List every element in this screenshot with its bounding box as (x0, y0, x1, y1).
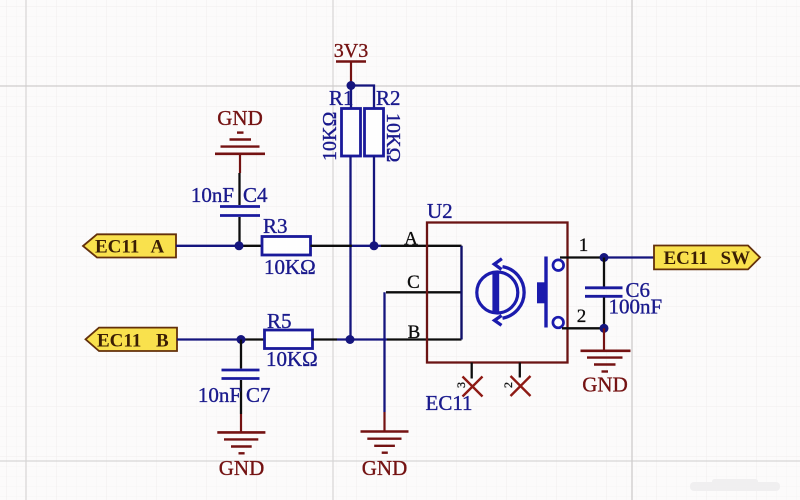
junction R1/EC11_B (346, 335, 355, 344)
wire EC11_A to junction (176, 245, 243, 247)
power 3V3 (334, 40, 368, 86)
svg-text:10nF: 10nF (191, 183, 234, 207)
svg-text:U2: U2 (427, 199, 453, 223)
svg-text:2: 2 (501, 382, 515, 388)
svg-text:2: 2 (577, 306, 587, 327)
pin C of U2 (386, 291, 462, 293)
pin R3.2 (311, 245, 353, 247)
svg-text:3V3: 3V3 (334, 40, 368, 62)
port EC11_B (86, 328, 178, 352)
switch plunger (537, 282, 545, 303)
svg-text:R3: R3 (263, 214, 288, 238)
svg-text:EC11: EC11 (426, 391, 473, 415)
ground GND (net C, bottom centre) (361, 412, 409, 453)
wire EC11_B to junction (177, 338, 245, 340)
svg-text:10KΩ: 10KΩ (266, 347, 318, 371)
wire C to GND (383, 292, 385, 412)
ground GND (below C7) (217, 414, 265, 453)
svg-text:SW: SW (721, 248, 751, 269)
svg-text:GND: GND (219, 456, 265, 480)
resistor R5 (265, 309, 318, 371)
no-connect pin 3 (454, 363, 483, 397)
svg-text:EC11: EC11 (95, 237, 139, 258)
junction 3V3 (347, 81, 356, 90)
pin R5.1 (245, 338, 265, 340)
wire to junction A (352, 245, 374, 247)
pin A of U2 (381, 245, 462, 247)
svg-text:A: A (404, 229, 418, 250)
watermark blob (690, 479, 780, 491)
junction R2/EC11_A (370, 241, 379, 250)
resistor R3 (262, 214, 316, 279)
capacitor C4 (191, 173, 268, 246)
switch contact 2 (553, 317, 564, 328)
wire pin1 to EC11_SW (604, 256, 654, 258)
svg-text:C4: C4 (243, 183, 268, 207)
svg-text:10KΩ: 10KΩ (264, 255, 316, 279)
port EC11_SW (654, 246, 760, 270)
svg-text:R2: R2 (376, 86, 401, 110)
ground GND (right) (581, 328, 631, 371)
pin 1 of U2 (560, 256, 604, 258)
svg-text:B: B (408, 322, 421, 343)
svg-text:100nF: 100nF (609, 295, 663, 319)
svg-text:R1: R1 (329, 86, 354, 110)
component U2 (EC11 encoder) body (427, 199, 568, 363)
pin B of U2 (387, 338, 462, 340)
wire 3V3 to R1 (350, 86, 352, 109)
svg-text:C: C (407, 272, 420, 293)
no-connect pin 2 (501, 363, 531, 397)
port EC11_A (83, 234, 176, 257)
wire 3V3 to R2 (351, 86, 374, 109)
svg-text:3: 3 (454, 382, 468, 388)
pin R5.2 (313, 338, 338, 340)
svg-text:10KΩ: 10KΩ (319, 112, 341, 161)
wire R1 bottom to EC11_B row (349, 156, 351, 340)
encoder rotor circle (477, 259, 524, 326)
svg-text:EC11: EC11 (664, 248, 708, 269)
svg-text:C7: C7 (246, 383, 271, 407)
wire R2 bottom to EC11_A row (373, 156, 375, 246)
capacitor C7 (198, 340, 271, 415)
svg-text:GND: GND (217, 106, 263, 130)
svg-text:EC11: EC11 (97, 331, 141, 352)
svg-text:1: 1 (579, 235, 589, 256)
ground GND (above C4, flipped) (215, 133, 265, 173)
resistor R1 (319, 86, 361, 161)
junction pin2/C6 (600, 324, 609, 333)
svg-text:GND: GND (362, 456, 408, 480)
junction C4/EC11_A (235, 241, 244, 250)
inner common bar (460, 246, 462, 340)
svg-text:10KΩ: 10KΩ (382, 113, 404, 162)
wire to junction B (337, 338, 387, 340)
junction C7/EC11_B (237, 335, 246, 344)
resistor R2 (365, 86, 405, 162)
svg-text:GND: GND (582, 373, 628, 397)
wire junction to pin A (374, 245, 381, 247)
switch contact 1 (553, 260, 564, 271)
capacitor C6 (585, 258, 662, 329)
junction pin1/C6 (600, 253, 609, 262)
pin R3.1 (243, 245, 262, 247)
svg-text:A: A (151, 237, 165, 258)
pin 2 of U2 (562, 327, 604, 329)
svg-text:B: B (156, 331, 169, 352)
switch common bar (544, 257, 547, 328)
svg-text:10nF: 10nF (198, 383, 241, 407)
